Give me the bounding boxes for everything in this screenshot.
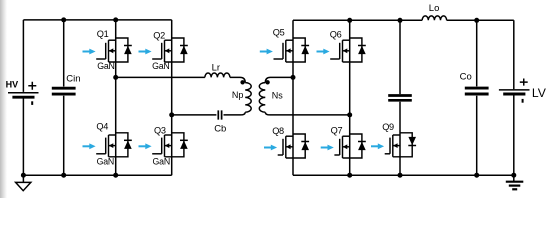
capacitor Cin xyxy=(52,87,76,90)
ground (primary) xyxy=(16,175,31,191)
node B: Q2-Q3 midpoint xyxy=(169,112,174,117)
svg-text:Q9: Q9 xyxy=(382,122,394,132)
svg-text:Ns: Ns xyxy=(272,90,283,100)
svg-text:HV: HV xyxy=(6,80,19,90)
wire: Q1/Q4 leg xyxy=(115,20,117,175)
svg-text:Np: Np xyxy=(232,90,244,100)
ground (secondary, earth) xyxy=(506,175,524,189)
wire: HV+ top rail xyxy=(23,19,171,21)
svg-text:Co: Co xyxy=(460,71,472,82)
wire: HV- bottom rail xyxy=(23,174,171,176)
svg-text:GaN: GaN xyxy=(97,61,115,71)
transistor Q6 xyxy=(330,38,362,62)
junction: clamp leg / top rail xyxy=(398,18,403,23)
svg-text:Cb: Cb xyxy=(214,123,226,134)
wire: bridge A output to Lr xyxy=(116,76,205,78)
wire: Ns top to Q5/Q8 midpoint xyxy=(265,77,293,82)
junction: Co / bottom rail xyxy=(474,173,479,178)
inductor Lo xyxy=(422,16,446,20)
capacitor Co xyxy=(465,87,489,90)
junction: Co / top rail xyxy=(474,18,479,23)
capacitor Cb xyxy=(218,110,221,119)
wire: clamp cap / Q9 leg xyxy=(399,20,401,175)
wire: Q6/Q7 leg xyxy=(349,20,351,175)
transistor Q1 xyxy=(96,38,128,62)
wire: bridge B output to Cb xyxy=(172,114,217,116)
svg-text:Q7: Q7 xyxy=(331,126,343,136)
junction: Q4 source / bottom rail xyxy=(113,173,118,178)
svg-text:Q5: Q5 xyxy=(273,28,285,38)
node: Ns dot xyxy=(265,80,269,84)
node C: Q5-Q8 midpoint xyxy=(291,75,296,80)
wire: LV branch xyxy=(513,20,515,175)
transistor Q9 xyxy=(385,133,413,157)
wire: Q5/Q8 leg xyxy=(292,20,294,175)
svg-text:Lo: Lo xyxy=(429,3,440,14)
node: Np dot xyxy=(240,80,244,84)
wire: secondary bottom rail xyxy=(293,174,514,176)
wire: Lr to Np top xyxy=(230,77,245,82)
wire: Cin branch xyxy=(63,20,65,175)
node D: Q6-Q7 midpoint xyxy=(347,112,352,117)
svg-text:Cin: Cin xyxy=(66,73,80,84)
svg-text:GaN: GaN xyxy=(153,156,171,166)
svg-text:GaN: GaN xyxy=(97,156,115,166)
transformer secondary winding Ns xyxy=(259,83,265,113)
transistor Q5 xyxy=(274,38,306,62)
wire: Cb to Np bottom xyxy=(224,112,246,115)
junction: ground / bottom rail xyxy=(21,173,26,178)
svg-text:Q4: Q4 xyxy=(96,122,108,132)
transistor Q3 xyxy=(152,133,184,157)
capacitor (output filter, unlabeled) xyxy=(388,94,412,97)
svg-text:Lr: Lr xyxy=(212,63,220,74)
battery HV xyxy=(6,80,39,105)
wire: secondary top rail xyxy=(293,19,514,21)
junction: Cin / top rail xyxy=(61,17,66,22)
inductor Lr xyxy=(205,73,230,77)
svg-text:Q1: Q1 xyxy=(97,29,109,39)
node A: Q1-Q4 midpoint xyxy=(113,75,118,80)
svg-text:Q6: Q6 xyxy=(330,30,342,40)
transistor Q7 xyxy=(334,134,362,158)
wire: Q2/Q3 leg xyxy=(171,20,173,175)
svg-text:GaN: GaN xyxy=(152,61,170,71)
svg-text:Q2: Q2 xyxy=(153,31,165,41)
junction: Q9 source / bottom rail xyxy=(398,173,403,178)
junction: LV- / ground xyxy=(511,173,516,178)
junction: Q7 source / bottom rail xyxy=(347,173,352,178)
wire: Co branch xyxy=(476,20,478,175)
wire: left rail (HV) xyxy=(22,20,24,175)
transformer primary winding Np xyxy=(245,83,251,113)
transistor Q4 xyxy=(96,133,128,157)
junction: Q1 drain / top rail xyxy=(113,17,118,22)
junction: Cin / bottom rail xyxy=(61,173,66,178)
junction: Q6 drain / top rail xyxy=(347,18,352,23)
svg-text:Q3: Q3 xyxy=(154,126,166,136)
svg-text:Q8: Q8 xyxy=(272,126,284,136)
battery LV xyxy=(499,79,547,103)
wire: Ns bottom to Q6/Q7 midpoint xyxy=(265,112,349,115)
transistor Q8 xyxy=(278,134,306,158)
transistor Q2 xyxy=(152,38,184,62)
svg-text:LV: LV xyxy=(532,86,547,100)
